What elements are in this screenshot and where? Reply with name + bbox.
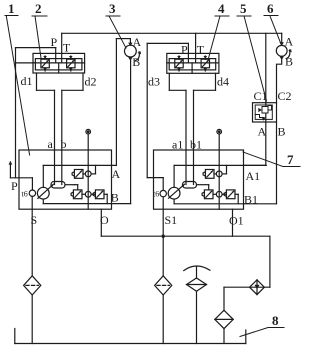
svg-text:1: 1: [8, 1, 15, 16]
svg-text:B: B: [132, 55, 140, 69]
svg-text:2: 2: [35, 1, 42, 16]
svg-text:A: A: [133, 35, 142, 49]
svg-text:A: A: [258, 125, 267, 139]
svg-text:P: P: [11, 179, 18, 193]
svg-text:O1: O1: [229, 214, 244, 228]
svg-text:d3: d3: [148, 75, 160, 89]
svg-text:b1: b1: [190, 138, 202, 152]
svg-text:S1: S1: [165, 213, 178, 227]
svg-text:d2: d2: [85, 75, 97, 89]
svg-text:6: 6: [267, 1, 274, 16]
svg-text:4: 4: [218, 1, 225, 16]
svg-text:B: B: [278, 125, 286, 139]
svg-text:P: P: [51, 35, 58, 49]
svg-text:S: S: [31, 213, 38, 227]
svg-text:t6: t6: [22, 190, 28, 199]
svg-text:5: 5: [240, 1, 247, 16]
svg-text:3: 3: [109, 1, 116, 16]
svg-text:b: b: [61, 137, 67, 151]
svg-text:8: 8: [272, 313, 279, 328]
svg-text:a: a: [48, 137, 54, 151]
svg-text:B1: B1: [244, 193, 258, 207]
svg-text:a1: a1: [172, 138, 183, 152]
svg-text:B: B: [285, 55, 293, 69]
svg-text:d4: d4: [217, 75, 229, 89]
svg-text:d1: d1: [21, 74, 33, 88]
svg-text:P: P: [181, 43, 188, 57]
svg-text:T: T: [63, 41, 71, 55]
svg-text:A1: A1: [246, 169, 261, 183]
svg-text:7: 7: [287, 152, 294, 167]
svg-text:O: O: [100, 213, 109, 227]
svg-text:B: B: [111, 191, 119, 205]
svg-text:A: A: [285, 35, 294, 49]
svg-text:t6: t6: [153, 190, 159, 199]
svg-text:C2: C2: [278, 89, 292, 103]
svg-text:T: T: [197, 43, 205, 57]
svg-text:A: A: [112, 167, 121, 181]
svg-text:C1: C1: [254, 89, 268, 103]
